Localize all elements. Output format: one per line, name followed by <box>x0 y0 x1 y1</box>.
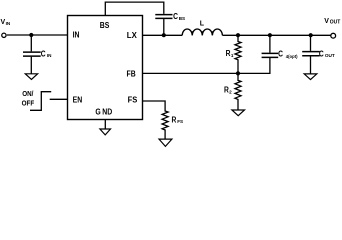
svg-text:BS: BS <box>100 20 110 30</box>
svg-text:OFF: OFF <box>22 100 35 108</box>
svg-text:V: V <box>324 18 329 25</box>
svg-text:C: C <box>319 49 324 59</box>
svg-text:OUT: OUT <box>325 53 335 58</box>
svg-text:1: 1 <box>231 53 234 58</box>
svg-text:ND: ND <box>102 107 112 117</box>
svg-text:OUT: OUT <box>330 20 341 26</box>
svg-text:LX: LX <box>127 31 138 40</box>
svg-text:ON/: ON/ <box>22 91 33 99</box>
svg-text:C: C <box>173 11 178 21</box>
svg-text:BS: BS <box>179 16 185 21</box>
svg-text:G: G <box>95 107 100 117</box>
svg-text:L: L <box>200 21 205 28</box>
svg-text:IN: IN <box>6 21 11 26</box>
svg-text:R: R <box>172 115 177 125</box>
svg-text:4(opt): 4(opt) <box>286 54 298 59</box>
svg-text:C: C <box>278 49 283 59</box>
svg-text:EN: EN <box>73 95 83 105</box>
svg-text:FS: FS <box>177 119 183 124</box>
svg-text:FS: FS <box>128 95 138 104</box>
svg-text:C: C <box>41 49 46 59</box>
svg-text:FB: FB <box>127 69 137 79</box>
svg-text:IN: IN <box>73 30 80 40</box>
svg-text:IN: IN <box>47 53 52 58</box>
svg-text:2: 2 <box>229 89 232 94</box>
